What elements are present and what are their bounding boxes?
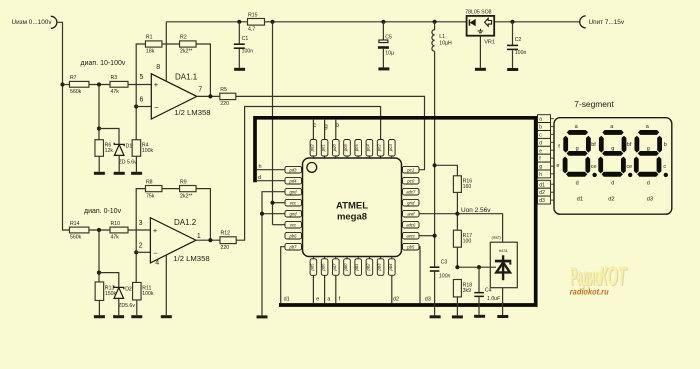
logo RadioKOT watermark [570, 261, 628, 296]
svg-text:d1: d1 [577, 196, 583, 202]
svg-text:C2: C2 [515, 37, 522, 43]
wire C4 to ground [478, 297, 480, 315]
svg-text:pc1: pc1 [406, 168, 414, 173]
wire R11 to ground [136, 300, 138, 315]
resistor R6 [95, 140, 113, 157]
svg-text:c: c [663, 164, 666, 170]
wire C5 to ground [382, 49, 384, 68]
svg-text:560k: 560k [70, 89, 82, 95]
resistor R14 [69, 221, 89, 241]
resistor R3 [110, 75, 128, 95]
junction R14/R10/divider [97, 228, 101, 232]
wire pin8 to +5v rail [165, 22, 167, 82]
svg-text:pb4: pb4 [388, 263, 393, 272]
ground R11 [131, 315, 142, 318]
net label b [336, 123, 340, 129]
svg-text:pc6: pc6 [343, 144, 348, 152]
wire R1 to R2 [162, 43, 180, 45]
wire pb5 to bus (digit d3) [419, 247, 420, 304]
svg-text:7-segment: 7-segment [574, 99, 614, 109]
svg-text:d3: d3 [647, 196, 653, 202]
junction ref divider [455, 265, 459, 269]
pin 3 label DA1.2 [139, 220, 143, 227]
ground VR1 [475, 68, 486, 71]
svg-text:d1: d1 [539, 182, 545, 188]
svg-text:D1: D1 [126, 144, 133, 150]
svg-text:2k2**: 2k2** [180, 49, 192, 55]
resistor R15 [248, 12, 265, 32]
svg-text:R5: R5 [220, 87, 227, 93]
ground R6 [94, 172, 105, 175]
svg-text:диап. 10-100v: диап. 10-100v [81, 60, 126, 67]
svg-text:10µH: 10µH [439, 41, 452, 47]
svg-text:d2: d2 [608, 196, 614, 202]
svg-text:R9: R9 [180, 179, 187, 185]
resistor R8 [145, 179, 162, 199]
svg-text:3k9: 3k9 [463, 288, 471, 294]
wire C2 top [512, 22, 514, 45]
wire R18 to ground [456, 297, 458, 315]
svg-text:R3: R3 [111, 75, 118, 81]
svg-text:78L05 SO8: 78L05 SO8 [465, 9, 491, 15]
capacitor C1 [234, 36, 253, 55]
net label d3 [425, 297, 431, 303]
svg-text:pb5: pb5 [406, 245, 415, 250]
svg-text:d: d [647, 180, 650, 186]
pin 5 label DA1.1 [140, 74, 144, 81]
junction rail / vcc drop [270, 20, 274, 24]
resistor R5 [220, 87, 236, 107]
svg-text:pd6: pd6 [321, 263, 326, 272]
wire feedback up to R1 [136, 44, 145, 107]
svg-text:adc6: adc6 [406, 223, 416, 228]
svg-text:pc5: pc5 [354, 144, 359, 152]
wire R4 to ground [135, 156, 137, 172]
wire C1 top [238, 22, 240, 44]
svg-text:d3: d3 [539, 198, 545, 204]
svg-text:R2: R2 [180, 35, 187, 41]
ground TL431 [497, 315, 508, 318]
net label h [259, 164, 262, 170]
junction -input DA1.1 [134, 104, 138, 108]
svg-text:100k: 100k [142, 148, 154, 154]
svg-text:b: b [539, 125, 542, 131]
svg-text:bf: bf [627, 142, 632, 148]
svg-text:12k: 12k [105, 148, 114, 154]
svg-text:pb0: pb0 [343, 263, 348, 272]
ground D1 [114, 172, 125, 175]
svg-text:pd1: pd1 [321, 144, 326, 152]
svg-text:tl431: tl431 [499, 248, 508, 253]
wire divider2 down [98, 230, 100, 282]
svg-text:100n: 100n [515, 50, 527, 56]
resistor R13 [95, 282, 116, 301]
svg-text:5: 5 [140, 74, 144, 81]
junction avcc line / R16 tap [433, 163, 437, 167]
wire rail VR1 output to input connector [494, 21, 580, 23]
svg-text:d: d [258, 175, 261, 181]
wire ref node to TL431 [457, 266, 496, 268]
junction DA1.1 output [208, 94, 212, 98]
net label f [339, 297, 341, 303]
shunt regulator DA2 TL431 [490, 234, 517, 287]
wire DA1.1 output [197, 95, 220, 97]
svg-text:100: 100 [463, 239, 472, 245]
junction rail / C5 [381, 20, 385, 24]
capacitor C2 [507, 37, 526, 56]
svg-text:Uизм 0...100v: Uизм 0...100v [12, 19, 53, 26]
op-amp DA1.2 [150, 218, 209, 263]
resistor R12 [220, 231, 236, 252]
svg-text:1.0uF: 1.0uF [487, 296, 501, 302]
ground D2 [113, 315, 124, 318]
wire -input stub [136, 106, 151, 108]
svg-text:ce: ce [591, 164, 597, 170]
wire TL431 to ground [502, 288, 504, 315]
svg-text:gnd: gnd [290, 190, 298, 195]
pin 4 label DA1.2 [155, 260, 159, 267]
resistor R18 [453, 280, 472, 297]
inductor L1 [432, 22, 452, 51]
svg-text:220: 220 [220, 101, 229, 107]
junction rail / C1 [237, 20, 241, 24]
resistor R7 [69, 75, 89, 95]
svg-text:gnd: gnd [407, 201, 415, 206]
svg-text:pc0: pc0 [406, 179, 414, 184]
svg-text:47k: 47k [111, 235, 120, 241]
svg-text:R8: R8 [146, 179, 153, 185]
pin 1 label DA1.2 [197, 233, 201, 240]
svg-text:gnd: gnd [290, 212, 298, 217]
svg-text:C1: C1 [242, 36, 249, 42]
svg-text:100k: 100k [142, 291, 154, 297]
svg-text:d: d [611, 180, 614, 186]
pin 6 label DA1.1 [140, 97, 144, 104]
resistor R16 [453, 176, 472, 193]
svg-text:pc4: pc4 [365, 144, 370, 152]
wire vcc pin stub [273, 202, 286, 204]
junction C4 tap [477, 265, 481, 269]
ground mcu [257, 315, 268, 318]
wire C3 to ground [434, 272, 436, 316]
label diap 0-10v [84, 208, 122, 215]
wire pin4 to ground [165, 255, 167, 315]
resistor R9 [180, 179, 197, 199]
svg-text:vcc: vcc [290, 201, 297, 206]
svg-text:Uоп 2.56v: Uоп 2.56v [461, 207, 491, 214]
svg-text:e: e [316, 297, 319, 303]
svg-text:pb6: pb6 [289, 234, 298, 239]
svg-text:Uпит 7...15v: Uпит 7...15v [589, 19, 625, 26]
ground C3 [430, 315, 441, 318]
svg-text:pb7: pb7 [289, 245, 298, 250]
svg-text:220: 220 [221, 245, 230, 251]
svg-text:1: 1 [197, 233, 201, 240]
svg-text:(da2): (da2) [492, 234, 502, 239]
wire R7 to node [89, 84, 110, 86]
wire vcc drop to mcu [272, 22, 274, 225]
ground C5 [378, 67, 389, 70]
svg-text:c: c [313, 123, 316, 129]
svg-text:d: d [576, 180, 579, 186]
junction DA1.2 output [208, 238, 212, 242]
net label a [327, 297, 331, 303]
svg-text:+: + [154, 80, 159, 89]
wire branch to D1 [99, 129, 119, 145]
wire R14 to node [89, 229, 110, 231]
wire feedback2 up to R8 [136, 189, 145, 253]
svg-text:ATMEL: ATMEL [336, 201, 368, 212]
svg-text:g: g [647, 146, 650, 152]
wire -input2 vertical to R11 [135, 252, 137, 283]
wire input connector to left rail [57, 22, 63, 84]
svg-text:avcc: avcc [406, 234, 416, 239]
svg-text:a: a [539, 117, 542, 123]
svg-text:radiokot.ru: radiokot.ru [570, 287, 609, 296]
svg-text:100n: 100n [242, 49, 254, 55]
wire C5 top [382, 22, 384, 40]
net label g [324, 124, 327, 130]
node label Uop 2.56v [461, 207, 491, 214]
svg-text:R12: R12 [221, 231, 231, 237]
junction left rail / R7 [60, 82, 64, 86]
connector display pins a-h d1-d3 [538, 115, 555, 204]
svg-text:g: g [539, 164, 542, 170]
svg-text:pc2: pc2 [377, 144, 382, 152]
bus display segments loop [255, 118, 538, 305]
svg-text:bf: bf [591, 142, 596, 148]
svg-text:ce: ce [626, 164, 632, 170]
svg-text:d2: d2 [393, 297, 399, 303]
wire avcc stub [419, 235, 435, 237]
wire R16 tap [435, 165, 458, 176]
label 7-segment title [574, 99, 614, 109]
ground C1 [234, 68, 245, 71]
svg-text:pd4: pd4 [289, 179, 298, 184]
junction Uop node [455, 212, 459, 216]
svg-text:6: 6 [140, 97, 144, 104]
svg-text:8: 8 [156, 64, 160, 71]
wire VR1 ground pin [479, 36, 481, 68]
wire R13 to ground [98, 301, 100, 316]
svg-text:1/2 LM358: 1/2 LM358 [174, 108, 210, 117]
svg-text:aref: aref [407, 212, 415, 217]
svg-text:D2: D2 [125, 287, 132, 293]
svg-text:560k: 560k [70, 235, 82, 241]
ic U1 pin boxes [285, 140, 419, 276]
svg-text:h: h [259, 164, 262, 170]
wire DA1.2 output [196, 239, 220, 241]
wire R12 to mcu adc (top pin 7) [236, 107, 380, 241]
svg-text:pc3: pc3 [388, 144, 393, 152]
wire R2 to output node [196, 44, 210, 96]
wire R8 to R9 [162, 188, 180, 190]
svg-text:d: d [539, 140, 542, 146]
wire bottom pin a to bus [324, 275, 326, 303]
junction rail / C2 [510, 20, 514, 24]
svg-text:18k: 18k [146, 49, 155, 55]
svg-text:75k: 75k [146, 193, 155, 199]
net label c [313, 123, 316, 129]
junction R7/R3/divider [97, 82, 101, 86]
wire pd4 to bus (segment d) [257, 180, 285, 182]
junction divider / D1 branch [97, 126, 101, 130]
wire C4 top [478, 267, 480, 292]
svg-text:R15: R15 [248, 12, 258, 18]
capacitor C4 [474, 287, 501, 302]
svg-text:−: − [154, 103, 159, 112]
svg-text:4: 4 [155, 260, 159, 267]
capacitor C5 electrolytic [378, 35, 394, 57]
svg-text:g: g [611, 146, 614, 152]
svg-text:pd5: pd5 [309, 263, 314, 272]
wire C1 to ground [238, 49, 240, 68]
svg-text:d3: d3 [425, 297, 431, 303]
ground C4 [474, 315, 485, 318]
svg-text:e: e [556, 163, 559, 169]
net label d [258, 175, 261, 181]
wire R16 to Uop node [456, 192, 458, 230]
svg-text:pd0: pd0 [332, 144, 337, 153]
wire left rail down to R14 [63, 85, 70, 231]
svg-text:e: e [539, 148, 542, 154]
resistor R1 [145, 35, 162, 55]
svg-text:DA1.2: DA1.2 [174, 218, 197, 227]
wire +5v rail left segment (pin8 tee to VR1) [166, 21, 466, 23]
svg-text:R14: R14 [70, 221, 80, 227]
svg-text:pb2: pb2 [365, 263, 370, 272]
junction rail / L1 [433, 20, 437, 24]
svg-text:h: h [539, 172, 542, 178]
svg-text:d2: d2 [539, 190, 545, 196]
wire divider down [98, 85, 100, 140]
wire top pin g to bus [324, 120, 326, 140]
svg-text:L1: L1 [439, 34, 445, 40]
junction divider2 / D2 branch [97, 271, 101, 275]
wire top pin b to bus [335, 120, 337, 140]
svg-text:47k: 47k [111, 89, 120, 95]
capacitor C3 [430, 260, 451, 280]
ground C2 [507, 68, 518, 71]
wire Uop to TL431 cathode [457, 214, 502, 243]
svg-text:ZD5.6v: ZD5.6v [118, 303, 135, 309]
wire -input2 stub [136, 251, 150, 253]
svg-text:R1: R1 [146, 35, 153, 41]
node Uizm input connector [12, 16, 57, 28]
wire R5 to pc1 (adc) [236, 96, 425, 169]
svg-text:pd2: pd2 [309, 144, 314, 153]
wire R17 to ref node [456, 247, 458, 267]
label diap 10-100v [81, 60, 126, 67]
pin 2 label DA1.2 [139, 243, 143, 250]
resistor R17 [453, 230, 472, 247]
diode D1 zener [114, 143, 137, 166]
svg-text:4,7: 4,7 [248, 27, 255, 33]
ic U1 ATMEL mega8 body [303, 158, 402, 257]
svg-text:pd7: pd7 [332, 263, 337, 272]
ground R13 [94, 315, 105, 318]
svg-text:7: 7 [198, 87, 202, 94]
svg-text:−: − [153, 249, 158, 258]
junction gnd pins [260, 212, 264, 216]
svg-text:pb1: pb1 [354, 264, 359, 272]
svg-text:100n: 100n [439, 274, 451, 280]
diode D2 zener [114, 286, 136, 309]
wire gnd pin 2 stub [262, 213, 285, 215]
resistor R11 [133, 282, 154, 300]
resistor R4 [132, 140, 153, 157]
op-amp DA1.1 [151, 72, 210, 119]
junction -input DA1.2 [134, 250, 138, 254]
svg-text:R10: R10 [111, 221, 121, 227]
regulator VR1 78L05 [465, 9, 495, 45]
svg-text:pd3: pd3 [289, 168, 298, 173]
svg-text:DA1.1: DA1.1 [175, 72, 198, 81]
svg-text:ZD 5.6v: ZD 5.6v [119, 159, 138, 165]
pin 8 label DA1.1 [156, 64, 160, 71]
resistor R10 [110, 221, 128, 241]
svg-text:g: g [324, 124, 327, 130]
wire gnd pins to ground [262, 192, 285, 316]
svg-text:mega8: mega8 [337, 212, 367, 223]
svg-text:d1: d1 [284, 297, 290, 303]
wire R3 to +input DA1.1 [128, 84, 151, 86]
wire D1 to ground [118, 155, 120, 171]
ground R18 [452, 315, 463, 318]
wire rail to R7 [63, 84, 70, 86]
display digits 8.8.8. [563, 130, 668, 177]
svg-text:vcc: vcc [290, 223, 297, 228]
svg-text:adc7: adc7 [406, 190, 416, 195]
svg-text:VR1: VR1 [484, 40, 495, 46]
node Upit supply connector [580, 16, 625, 28]
junction vcc pins [270, 201, 274, 205]
junction avcc / filter line [433, 234, 437, 238]
svg-text:диап. 0-10v: диап. 0-10v [84, 208, 122, 215]
svg-text:C3: C3 [441, 260, 448, 266]
net label d2 [393, 297, 399, 303]
wire D2 to ground [118, 298, 120, 315]
svg-text:2: 2 [139, 243, 143, 250]
wire R10 to +input DA1.2 [128, 229, 150, 231]
wire aref to Uop node [419, 213, 457, 215]
display segment labels [556, 124, 666, 202]
wire pd3 to bus (segment h) [257, 169, 285, 171]
wire branch to D2 [99, 273, 119, 287]
pin 7 label DA1.1 [198, 87, 202, 94]
svg-text:10µ: 10µ [385, 50, 394, 56]
svg-text:3: 3 [139, 220, 143, 227]
wire top pin c to bus [312, 120, 314, 140]
wire C2 to ground [512, 50, 514, 68]
wire -input vertical to R4 [135, 107, 137, 140]
ground R4 [131, 172, 142, 175]
wire L1 to avcc line [434, 51, 436, 266]
wire R9 to output node 2 [196, 189, 210, 241]
svg-text:R7: R7 [70, 75, 77, 81]
net label d1 [284, 297, 290, 303]
wire R6 to ground [98, 156, 100, 172]
wire bottom pin e to bus [312, 275, 314, 303]
net label e [316, 297, 319, 303]
wire vcc pin 2 stub [273, 224, 286, 226]
svg-text:g: g [576, 146, 579, 152]
svg-text:160: 160 [463, 184, 472, 190]
svg-text:C5: C5 [385, 35, 392, 41]
wire bottom pin f to bus [335, 275, 337, 303]
wire pb7 to bus (digit d1) [281, 247, 285, 304]
svg-text:pb3: pb3 [377, 263, 382, 272]
